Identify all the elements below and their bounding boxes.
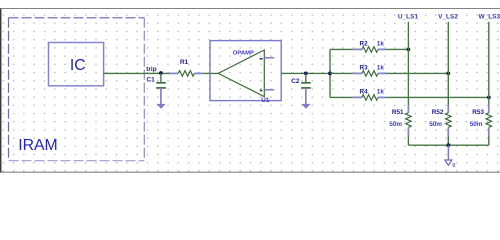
svg-text:C2: C2: [291, 78, 300, 85]
wire R4 to W_LS3 column: [385, 96, 489, 98]
capacitor C1: [156, 73, 166, 104]
svg-text:R51: R51: [392, 109, 404, 116]
svg-text:R2: R2: [360, 40, 369, 47]
wire top row left: [330, 48, 353, 50]
ground symbol: [445, 160, 452, 165]
svg-text:IRAM: IRAM: [18, 137, 58, 154]
svg-text:U1: U1: [261, 97, 270, 104]
junction C2 node: [304, 72, 308, 76]
svg-text:W_LS3: W_LS3: [478, 14, 500, 21]
svg-text:50m: 50m: [389, 121, 402, 128]
wire opamp output to C2 node and bus: [281, 72, 330, 74]
resistor R4: [353, 95, 386, 101]
wire R2 to U_LS1 column: [385, 48, 408, 50]
wire bottom row left: [330, 96, 353, 98]
resistor R53: [486, 106, 492, 146]
svg-text:C1: C1: [147, 77, 156, 84]
svg-text:V_LS2: V_LS2: [438, 14, 458, 21]
ground arrow below C2: [301, 104, 310, 109]
junction trip node: [159, 71, 163, 75]
junction V_LS2 node: [446, 72, 450, 76]
op-amp U1 box: [210, 41, 281, 101]
svg-text:R3: R3: [360, 64, 369, 71]
svg-text:1k: 1k: [377, 88, 385, 95]
svg-text:50m: 50m: [429, 121, 442, 128]
junction U_LS1 node: [407, 48, 411, 52]
op-amp plus input stub: [264, 89, 274, 91]
svg-text:R52: R52: [432, 109, 444, 116]
svg-text:U_LS1: U_LS1: [398, 14, 419, 21]
resistor R3: [353, 71, 386, 77]
ground stub: [447, 145, 449, 160]
svg-text:R4: R4: [360, 88, 369, 95]
svg-text:trip: trip: [146, 66, 156, 73]
resistor R2: [353, 47, 386, 53]
svg-text:50m: 50m: [470, 121, 483, 128]
junction bus node: [328, 72, 332, 76]
IRAM dashed subcircuit box: [9, 18, 145, 161]
resistor R1: [170, 71, 202, 77]
capacitor C2: [301, 73, 311, 104]
svg-text:R1: R1: [180, 59, 189, 66]
wire R3 to V_LS2 column: [385, 72, 448, 74]
wire V_LS2 column: [447, 22, 449, 106]
sheet top border: [0, 8, 500, 10]
sheet bottom border: [0, 171, 500, 173]
wire W_LS3 column: [488, 22, 490, 106]
svg-text:1k: 1k: [377, 64, 385, 71]
wire vertical bus: [329, 49, 331, 97]
minus marker: [259, 58, 262, 60]
resistor R51: [406, 106, 412, 146]
ground arrow below C1: [157, 104, 166, 109]
resistor R52: [446, 106, 452, 146]
IC block: [49, 43, 104, 86]
svg-text:OPAMP: OPAMP: [233, 51, 254, 57]
op-amp minus input stub: [264, 57, 274, 59]
op-amp U1 triangle: [218, 50, 264, 97]
svg-text:1k: 1k: [377, 40, 385, 47]
svg-text:0: 0: [452, 163, 455, 169]
plus marker: [260, 89, 263, 92]
sheet left border: [0, 9, 2, 173]
svg-text:IC: IC: [70, 57, 86, 74]
wire bottom rail: [408, 144, 488, 146]
wire middle row left: [330, 72, 353, 74]
junction W_LS3 node: [487, 96, 491, 100]
wire U_LS1 column: [407, 22, 409, 106]
junction ground node: [447, 143, 451, 147]
wire R1 to opamp: [202, 72, 218, 74]
grid dots: [2, 9, 500, 172]
wire IC output to trip node: [104, 72, 170, 74]
svg-text:R53: R53: [472, 109, 484, 116]
